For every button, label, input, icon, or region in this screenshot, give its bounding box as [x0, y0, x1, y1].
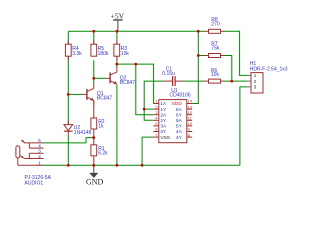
connector H1 HDR-F-2.54_1x3 — [247, 61, 288, 93]
svg-text:270: 270 — [211, 22, 220, 28]
svg-text:2: 2 — [38, 154, 41, 159]
svg-text:HDR-F-2.54_1x3: HDR-F-2.54_1x3 — [250, 67, 288, 73]
ground symbol GND — [86, 165, 104, 186]
wire C1 to R6 — [183, 80, 205, 82]
U1 pin 8 (4Y) — [187, 136, 192, 138]
svg-text:3Y: 3Y — [160, 129, 167, 135]
svg-text:+5V: +5V — [111, 11, 125, 20]
svg-text:1Y: 1Y — [160, 107, 167, 113]
node R3/Q2 collector — [116, 63, 119, 66]
svg-text:GND: GND — [86, 178, 104, 187]
U1 pin 11 (5A) — [187, 119, 192, 121]
svg-text:12: 12 — [188, 110, 193, 115]
wire diode cathode to ground rail — [67, 136, 69, 166]
transistor Q2 BC847 — [106, 68, 136, 86]
U1 pin 14 (VDD) — [187, 103, 192, 105]
wire oscillator node (R3/Q2C to U1 1A) — [117, 64, 154, 103]
node R7/R6/H1 pin2 — [230, 80, 233, 83]
wire H1 pin3 to ground rail — [240, 87, 247, 165]
node rail/R1/GND — [92, 164, 95, 167]
svg-text:4Y: 4Y — [176, 135, 183, 141]
U1 pin 3 (2A) — [153, 114, 159, 116]
wire Q1 emitter to R2 — [93, 101, 95, 118]
svg-text:13: 13 — [188, 104, 193, 109]
U1 pin 13 (6A) — [187, 108, 192, 110]
svg-text:3.3k: 3.3k — [72, 51, 82, 57]
node rail/Q2 emitter — [116, 164, 119, 167]
svg-text:0.15u: 0.15u — [162, 71, 175, 77]
wire Q1 collector to R5 — [93, 60, 95, 84]
svg-text:10k: 10k — [211, 72, 220, 78]
wire R8 to H1 pin1 — [225, 31, 247, 75]
wire R2 to R1 junction — [93, 129, 95, 145]
U1 pin 7 (VSS) — [153, 136, 159, 138]
wire Q2 collector to node — [116, 64, 118, 68]
node R7 tap — [197, 54, 200, 57]
svg-text:6Y: 6Y — [176, 112, 183, 118]
svg-text:3A: 3A — [160, 124, 167, 130]
resistor R4 — [65, 44, 71, 56]
node U1 1Y/2Y/C1 — [143, 108, 146, 111]
node osc branch — [134, 63, 137, 66]
connector AUDIO1 PJ-3126-5A — [16, 138, 52, 186]
svg-text:10k: 10k — [121, 51, 130, 57]
U1 pin 2 (1Y) — [153, 108, 159, 110]
svg-text:180k: 180k — [98, 51, 109, 57]
U1 pin 5 (3A) — [153, 125, 159, 127]
capacitor C1 — [162, 66, 183, 86]
resistor R8 — [205, 17, 225, 33]
node bus/R5 — [92, 30, 95, 33]
node Q1 collector/Q2 base — [92, 77, 95, 80]
diode U2 1N4148 — [64, 125, 92, 136]
H1 pin 3 — [247, 86, 251, 88]
wire ground rail — [18, 164, 44, 166]
svg-text:2A: 2A — [160, 112, 167, 118]
resistor R2 — [91, 118, 97, 129]
resistor R5 — [91, 44, 97, 56]
svg-text:10: 10 — [188, 121, 193, 126]
wire R3 column (bus to R3, R3 to node) — [116, 31, 118, 44]
svg-text:CD40106: CD40106 — [170, 92, 191, 98]
wire +5V branch right (bus to VDD) — [192, 31, 198, 103]
power flag +5V — [111, 11, 125, 31]
wire bus to R8 — [198, 30, 204, 32]
resistor R1 — [91, 145, 97, 156]
node bus/R3/+5V — [116, 30, 119, 33]
svg-text:5A: 5A — [176, 118, 183, 124]
svg-text:BC847: BC847 — [97, 96, 113, 102]
svg-text:5Y: 5Y — [176, 124, 183, 130]
U1 pin 9 (4A) — [187, 131, 192, 133]
node rail/diode — [67, 164, 70, 167]
U1 pin 10 (5Y) — [187, 125, 192, 127]
wire R1 to ground rail — [93, 156, 95, 166]
H1 pin 1 — [247, 74, 251, 76]
wire R6 to H1 pin2 — [225, 80, 247, 82]
wire Q1 base to R4 column — [68, 93, 82, 95]
wire U1 VSS to ground rail — [142, 137, 153, 165]
svg-text:VDD: VDD — [172, 101, 183, 107]
wire Q2 base tap — [94, 77, 106, 79]
wire +5V bus top — [68, 30, 198, 32]
resistor R3 — [114, 44, 120, 56]
svg-text:14: 14 — [188, 99, 193, 104]
node rail/VSS — [141, 164, 144, 167]
node Q1 base/R4/diode — [67, 93, 70, 96]
svg-text:1: 1 — [38, 160, 41, 165]
svg-text:6A: 6A — [176, 107, 183, 113]
wire jack pin5 to R2/R1 junction — [44, 138, 94, 143]
transistor Q1 BC847 — [83, 85, 113, 106]
svg-text:BC847: BC847 — [120, 80, 136, 86]
resistor R6 — [205, 68, 225, 83]
svg-text:1k: 1k — [98, 124, 104, 130]
svg-text:1A: 1A — [160, 101, 167, 107]
svg-text:AUDIO1: AUDIO1 — [25, 180, 44, 186]
svg-text:75k: 75k — [211, 45, 220, 51]
node bus/R8/+5V branch — [197, 30, 200, 33]
resistor R7 — [205, 41, 225, 57]
U1 pin 12 (6Y) — [187, 114, 192, 116]
wire R7 to H1 pin2 net — [225, 56, 232, 82]
U1 pin 4 (2Y) — [153, 119, 159, 121]
H1 pin 2 — [247, 80, 251, 82]
wire R4 column (bus to R4, R4 to diode via Q1 base node) — [67, 31, 69, 44]
wire +5V vertical to R7 — [198, 55, 204, 57]
wire Q2 emitter to ground rail — [116, 84, 118, 165]
U1 pin 1 (1A) — [153, 103, 159, 105]
wire R5 column (bus to R5) — [93, 31, 95, 44]
svg-text:VSS: VSS — [160, 135, 170, 141]
svg-text:1N4148: 1N4148 — [74, 130, 92, 136]
node R2/R1/jack — [92, 136, 95, 139]
wire branch to U1 2A — [136, 64, 154, 115]
svg-text:2Y: 2Y — [160, 118, 167, 124]
svg-text:6.2k: 6.2k — [98, 150, 108, 156]
IC U1 CD40106 — [153, 88, 193, 143]
wire C1 net to U1 1Y and 2Y — [144, 81, 164, 120]
U1 pin 6 (3Y) — [153, 131, 159, 133]
svg-text:4A: 4A — [176, 129, 183, 135]
